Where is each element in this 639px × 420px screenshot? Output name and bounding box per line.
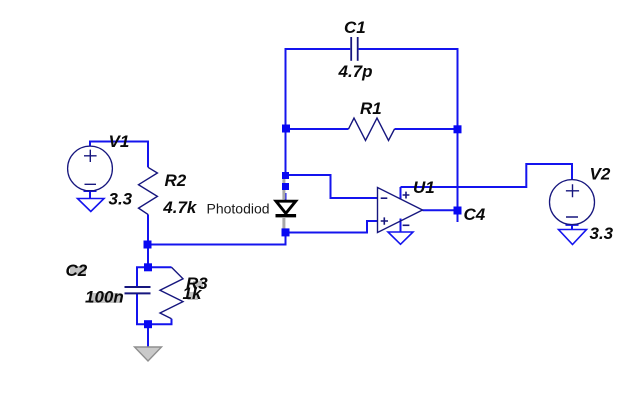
svg-text:Photodiod: Photodiod: [207, 201, 270, 217]
svg-text:1k: 1k: [183, 284, 203, 303]
svg-text:C2: C2: [66, 261, 88, 280]
svg-text:3.3: 3.3: [109, 190, 133, 209]
svg-text:C1: C1: [344, 18, 366, 37]
svg-text:4.7k: 4.7k: [162, 198, 198, 217]
svg-text:100n: 100n: [85, 288, 124, 307]
svg-text:C4: C4: [464, 205, 486, 224]
svg-text:4.7p: 4.7p: [338, 62, 373, 81]
svg-text:V2: V2: [590, 165, 611, 184]
svg-text:R1: R1: [360, 99, 382, 118]
svg-text:V1: V1: [109, 132, 130, 151]
svg-text:3.3: 3.3: [590, 224, 614, 243]
svg-text:R2: R2: [165, 171, 187, 190]
svg-text:U1: U1: [413, 178, 435, 197]
